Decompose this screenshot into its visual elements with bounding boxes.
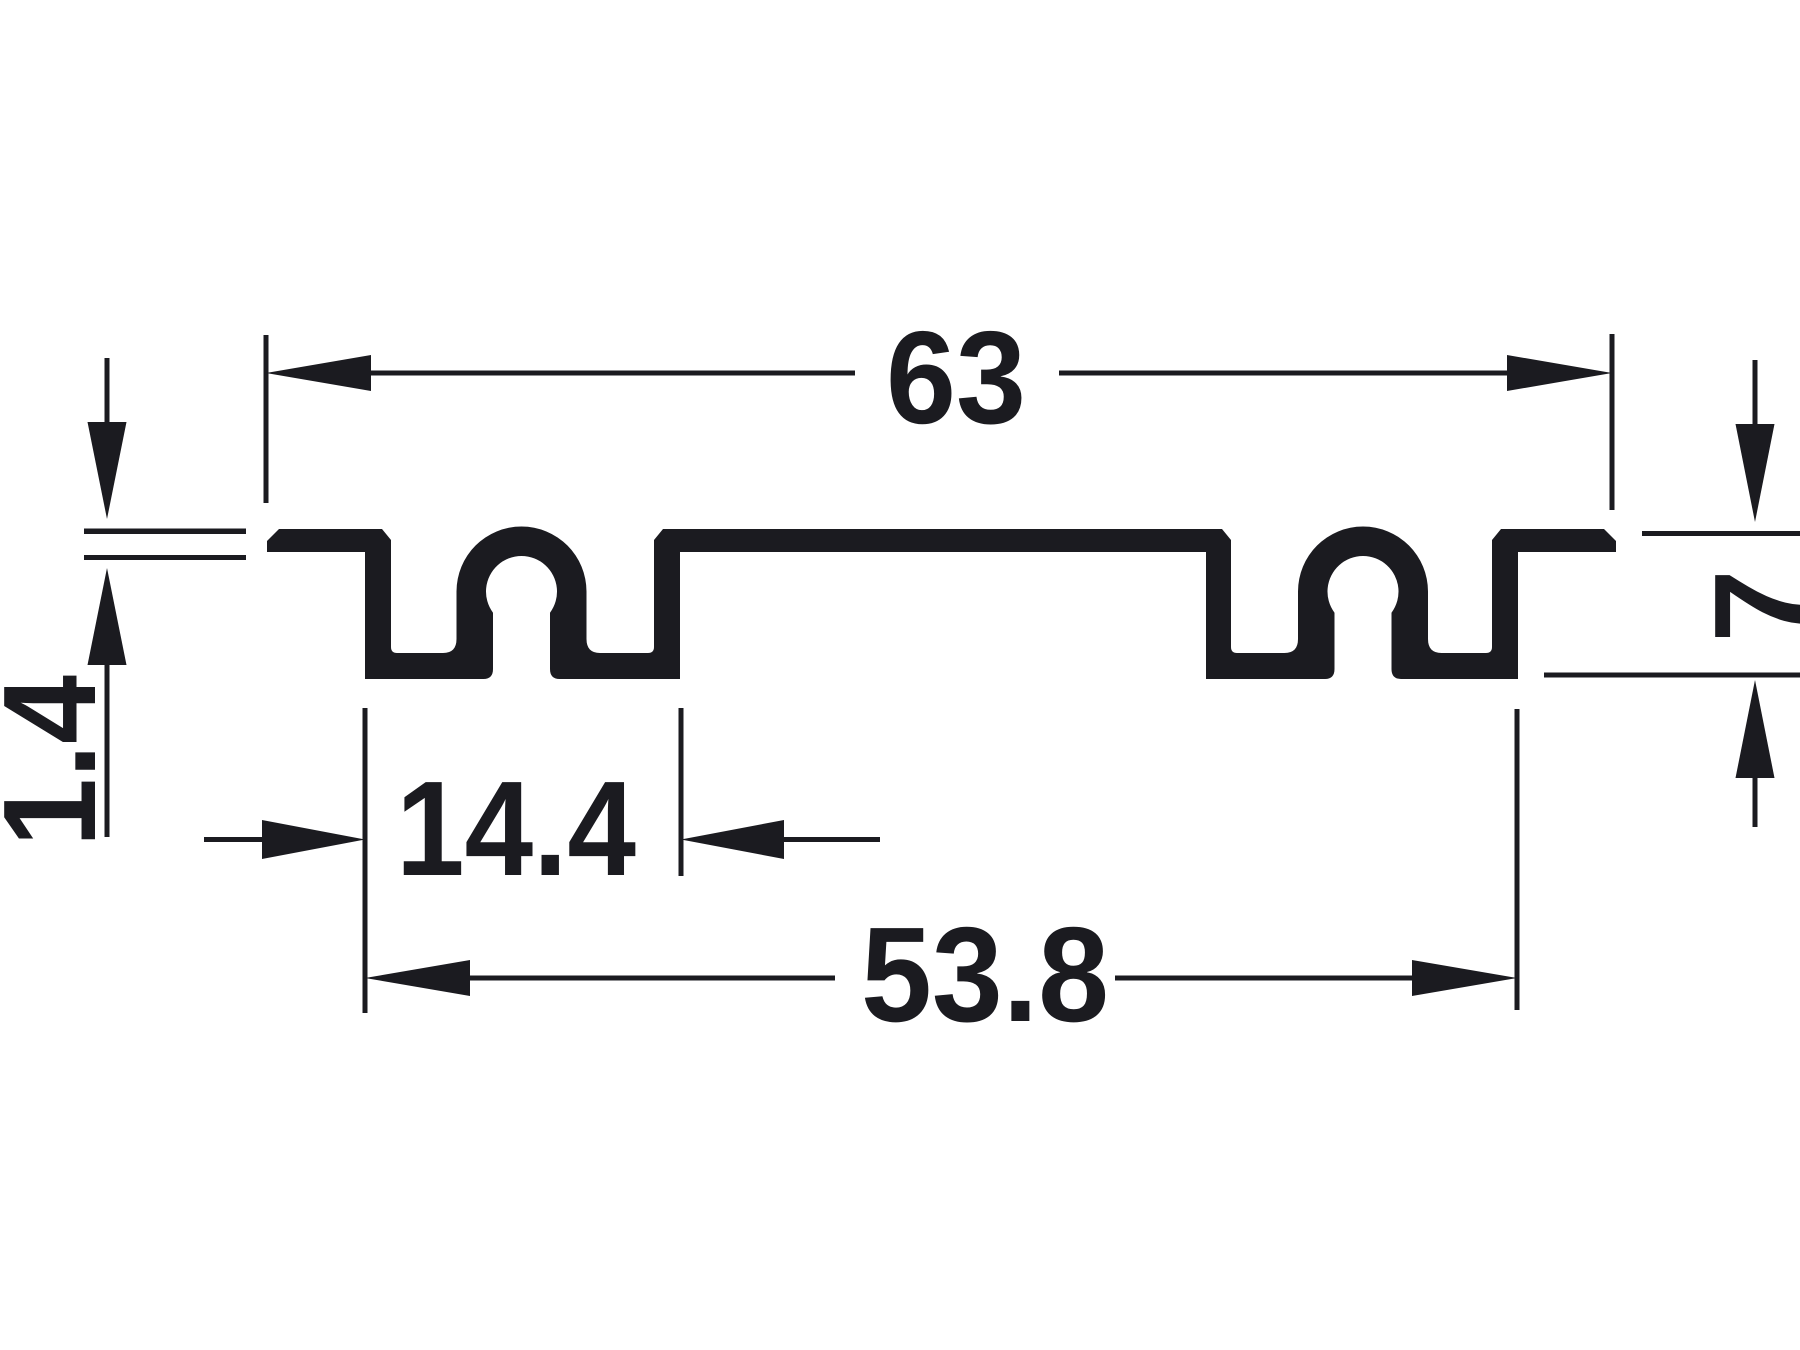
svg-text:1.4: 1.4 [0, 675, 123, 847]
dimension 63: right arrowhead [1507, 355, 1612, 391]
dimension 14.4: left arrowhead pointing right [262, 820, 365, 859]
dimension 1.4: bottom arrow shaft [105, 663, 110, 837]
dimension 63: left extension line [264, 335, 269, 503]
dimension 14.4: left extension line [363, 708, 368, 1013]
dimension 1.4: top arrowhead pointing down [88, 422, 127, 519]
profile cross-section (aluminium track with two keyhole screw channels) [267, 527, 1616, 680]
dimension 63: right line segment [1059, 371, 1510, 376]
dimension 7: bottom extension line (bottom surface) [1544, 673, 1800, 678]
svg-text:7: 7 [1687, 569, 1800, 642]
dimension 1.4: lower extension line (bottom surface) [84, 555, 246, 560]
dimension 53.8: left arrowhead [365, 960, 470, 996]
svg-text:14.4: 14.4 [396, 753, 636, 904]
dimension 7: bottom arrowhead pointing up [1736, 680, 1775, 778]
dimension 7: top arrow shaft [1753, 360, 1758, 424]
dimension 14.4: left arrow shaft [204, 837, 266, 842]
dimension 63: right extension line [1610, 334, 1615, 510]
dimension 1.4: top arrow shaft [105, 358, 110, 424]
dimension 14.4: right arrow shaft [782, 837, 880, 842]
dimension 1.4: upper extension line (top surface) [84, 529, 246, 535]
dimension 1.4: bottom arrowhead pointing up [88, 568, 127, 665]
dimension 7: top arrowhead pointing down [1736, 424, 1775, 522]
dimension 53.8: right extension line [1515, 709, 1520, 1010]
dimension 53.8: right line segment [1115, 976, 1415, 981]
dimension 14.4: right arrowhead pointing left [681, 820, 784, 859]
dimension 14.4: right extension line [679, 708, 684, 876]
dimension 53.8: left line segment [467, 976, 835, 981]
dimension 7: top extension line (top surface) [1642, 531, 1800, 536]
dimension 63: left line segment [368, 371, 855, 376]
svg-text:63: 63 [886, 304, 1026, 451]
svg-text:53.8: 53.8 [861, 899, 1109, 1050]
dimension 7: bottom arrow shaft [1753, 776, 1758, 827]
dimension 63: left arrowhead [266, 355, 371, 391]
dimension 53.8: right arrowhead [1412, 960, 1517, 996]
